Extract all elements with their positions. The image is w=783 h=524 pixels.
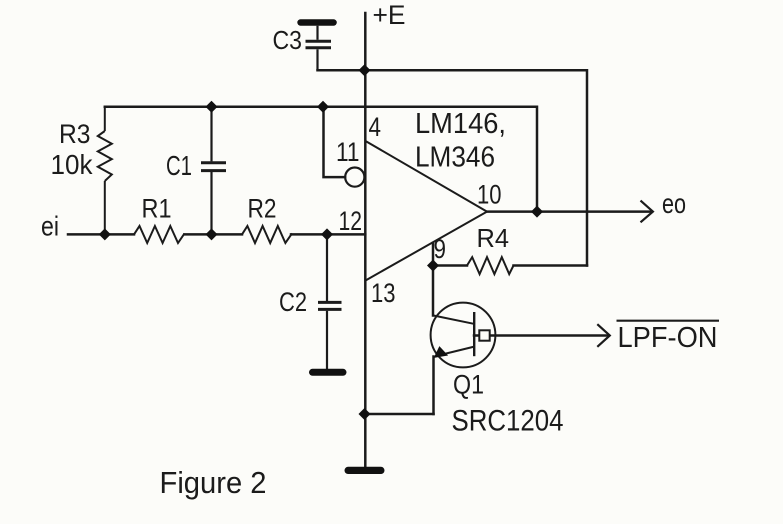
capacitor C2: [318, 234, 342, 369]
junction ei line at C2 / pin 12: [321, 228, 333, 240]
capacitor C1: [201, 107, 226, 235]
wire: Q1 emitter down to bottom wire: [432, 357, 435, 415]
ground (main, bottom of rail): [345, 467, 385, 474]
wire: op-amp output to eo arrow: [487, 210, 652, 213]
svg-text:R3: R3: [59, 119, 91, 149]
arrowhead LPF-ON: [597, 324, 610, 347]
ground bar above C3: [297, 19, 337, 25]
svg-text:R1: R1: [142, 193, 172, 223]
wire: R4 zigzag right side to vertical riser: [514, 264, 588, 267]
junction output node: [531, 206, 543, 218]
svg-text:Figure 2: Figure 2: [160, 465, 267, 500]
wire: C3 lead to +E rail, across top and down right side to R4: [318, 70, 588, 265]
svg-text:13: 13: [371, 278, 396, 308]
svg-text:LM146,: LM146,: [415, 108, 506, 140]
pin 11 bubble: [345, 168, 364, 187]
resistor R1: [134, 226, 184, 243]
wire: Q1 base bar to LPF-ON arrow: [474, 334, 609, 337]
svg-text:C3: C3: [273, 25, 303, 55]
junction ei line at R3: [99, 228, 111, 240]
wire: Q1 collector from pin 9 node down into circle: [432, 266, 435, 316]
junction on +E rail at C3 wire: [359, 64, 371, 76]
capacitor C3: [306, 26, 332, 71]
junction feedback line at pin 11 branch: [317, 101, 329, 113]
resistor R4: [467, 257, 514, 274]
Q1 emitter arrowhead: [435, 347, 448, 357]
wire: input line R2 to op-amp pin 12: [291, 233, 365, 236]
svg-text:R4: R4: [477, 223, 510, 253]
ground below C2: [309, 369, 347, 376]
wire: feedback line from R3 top across to output, down at right: [105, 107, 537, 212]
svg-text:SRC1204: SRC1204: [452, 404, 564, 437]
svg-text:11: 11: [336, 137, 360, 167]
wire: input ei line segment (ei to R1): [68, 233, 134, 236]
svg-text:Q1: Q1: [453, 370, 484, 400]
wire: bottom wire from rail to emitter: [365, 413, 434, 416]
junction pin 9 / R4 / collector: [427, 260, 439, 272]
svg-text:9: 9: [434, 234, 447, 264]
svg-text:12: 12: [339, 206, 363, 236]
junction feedback line at C1 top: [206, 101, 218, 113]
svg-text:ei: ei: [41, 211, 59, 242]
op-amp U1 triangle LM146/LM346: [366, 141, 488, 281]
wire: pin 9 stub from triangle bottom edge down to R4 node: [432, 243, 435, 266]
svg-text:LPF-ON: LPF-ON: [618, 322, 718, 354]
svg-text:4: 4: [369, 112, 382, 142]
resistor R2: [242, 226, 292, 243]
wire: +E power rail (vertical): [364, 13, 367, 467]
svg-text:10k: 10k: [51, 149, 94, 180]
svg-text:R2: R2: [248, 193, 277, 223]
wire: pin 11 branch from feedback line down to bubble: [324, 107, 346, 177]
svg-text:+E: +E: [373, 0, 406, 30]
junction ei line at C1: [206, 228, 218, 240]
svg-text:C2: C2: [279, 287, 307, 317]
svg-text:10: 10: [477, 179, 502, 209]
Q1 base square terminal: [479, 330, 489, 340]
svg-text:LM346: LM346: [415, 142, 495, 174]
junction rail at bottom wire: [359, 408, 371, 420]
wire: input line R1 to R2: [185, 233, 243, 236]
overline for LPF-ON: [617, 320, 720, 322]
svg-text:C1: C1: [166, 150, 192, 181]
resistor R3 (vertical zigzag): [98, 107, 112, 235]
svg-text:eo: eo: [662, 188, 686, 219]
transistor Q1: [431, 303, 496, 368]
arrowhead eo: [641, 201, 653, 223]
wire: R4 node to zigzag: [433, 264, 467, 267]
